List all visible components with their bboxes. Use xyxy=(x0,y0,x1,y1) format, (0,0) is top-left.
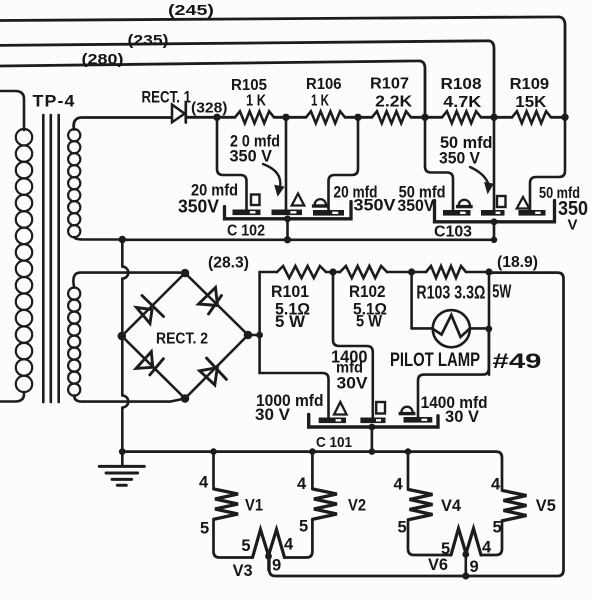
svg-text:RECT. 2: RECT. 2 xyxy=(156,331,208,348)
svg-text:C103: C103 xyxy=(434,224,472,241)
svg-text:350V: 350V xyxy=(178,197,219,217)
svg-text:RECT. 1: RECT. 1 xyxy=(142,89,192,107)
svg-text:R103 3.3Ω: R103 3.3Ω xyxy=(416,282,485,303)
svg-text:V5: V5 xyxy=(536,496,556,515)
svg-text:1 K: 1 K xyxy=(311,93,329,110)
svg-text:9: 9 xyxy=(470,558,479,576)
svg-text:30V: 30V xyxy=(337,374,369,393)
svg-text:R101: R101 xyxy=(271,283,309,301)
svg-text:V1: V1 xyxy=(245,496,263,515)
svg-text:5 W: 5 W xyxy=(275,313,305,331)
svg-text:350 V: 350 V xyxy=(439,149,481,168)
svg-text:(18.9): (18.9) xyxy=(497,254,538,271)
svg-text:PILOT LAMP: PILOT LAMP xyxy=(390,350,480,371)
svg-text:4: 4 xyxy=(297,475,307,493)
svg-text:5 W: 5 W xyxy=(356,313,382,331)
svg-text:V4: V4 xyxy=(441,496,462,515)
svg-text:R109: R109 xyxy=(510,76,550,93)
svg-text:5W: 5W xyxy=(492,281,511,302)
svg-text:4.7K: 4.7K xyxy=(443,94,482,111)
svg-text:4: 4 xyxy=(284,536,294,554)
svg-text:4: 4 xyxy=(394,476,404,494)
svg-text:9: 9 xyxy=(272,557,281,575)
svg-text:350V: 350V xyxy=(397,196,435,215)
svg-text:#49: #49 xyxy=(493,350,542,373)
svg-text:350V: 350V xyxy=(354,196,397,215)
svg-text:(280): (280) xyxy=(82,51,124,68)
svg-text:5: 5 xyxy=(441,540,450,558)
svg-text:R102: R102 xyxy=(349,283,386,301)
svg-text:5: 5 xyxy=(241,537,250,555)
svg-text:4: 4 xyxy=(482,539,492,557)
svg-text:4: 4 xyxy=(199,474,209,492)
svg-text:(328): (328) xyxy=(191,101,228,117)
svg-text:4: 4 xyxy=(491,476,501,494)
svg-text:R105: R105 xyxy=(231,77,267,94)
svg-text:2.2K: 2.2K xyxy=(375,94,412,111)
svg-text:5: 5 xyxy=(299,518,308,536)
svg-text:V2: V2 xyxy=(348,496,366,515)
svg-text:1 K: 1 K xyxy=(246,93,266,110)
svg-text:350 V: 350 V xyxy=(230,147,273,166)
svg-text:C 102: C 102 xyxy=(227,223,265,240)
svg-text:V: V xyxy=(568,217,578,234)
svg-text:(28.3): (28.3) xyxy=(208,255,249,272)
svg-text:R106: R106 xyxy=(306,76,342,93)
svg-text:30 V: 30 V xyxy=(255,405,291,424)
svg-text:5: 5 xyxy=(200,520,209,538)
svg-text:5: 5 xyxy=(398,519,407,537)
svg-text:5: 5 xyxy=(493,519,502,537)
svg-text:C 101: C 101 xyxy=(316,434,352,451)
svg-text:V3: V3 xyxy=(233,561,253,580)
svg-text:(235): (235) xyxy=(128,32,169,49)
svg-text:15K: 15K xyxy=(515,94,546,111)
svg-text:R108: R108 xyxy=(441,76,482,93)
svg-text:R107: R107 xyxy=(370,76,409,93)
svg-text:(245): (245) xyxy=(168,2,214,19)
svg-text:30 V: 30 V xyxy=(445,407,480,426)
svg-text:TP-4: TP-4 xyxy=(33,93,76,111)
